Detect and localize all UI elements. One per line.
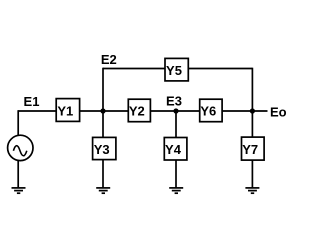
wire Y4 bottom to ground xyxy=(175,160,177,188)
svg-text:E3: E3 xyxy=(166,94,182,109)
admittance block Y5 xyxy=(165,58,188,81)
admittance block Y6 xyxy=(200,99,222,122)
wire source bottom to ground xyxy=(17,161,19,188)
svg-text:Y1: Y1 xyxy=(57,104,73,119)
wire node E2 vertical (Y5 branch through bus down to Y3) xyxy=(102,68,104,138)
node label E1 xyxy=(24,94,40,109)
admittance block Y4 xyxy=(164,138,187,161)
svg-text:Y4: Y4 xyxy=(165,142,182,157)
junction dot node E2 xyxy=(100,108,105,113)
svg-text:Y7: Y7 xyxy=(242,142,258,157)
junction dot node E3 xyxy=(173,108,178,113)
svg-text:Eo: Eo xyxy=(270,105,287,120)
wire node E3 vertical down to Y4 xyxy=(175,110,177,138)
node label Eo xyxy=(270,105,287,120)
svg-text:E2: E2 xyxy=(101,52,117,67)
wire source vertical drop from E1 xyxy=(17,110,19,135)
wire Y3 bottom to ground xyxy=(102,159,104,187)
node label E3 xyxy=(166,94,182,109)
ground (below Y4) xyxy=(169,188,183,193)
ground (below Y7) xyxy=(245,188,259,193)
admittance block Y1 xyxy=(56,99,79,122)
wire Y7 bottom to ground xyxy=(251,160,253,188)
svg-text:E1: E1 xyxy=(24,94,40,109)
svg-text:Y3: Y3 xyxy=(94,142,110,157)
svg-text:Y6: Y6 xyxy=(200,104,216,119)
svg-text:Y5: Y5 xyxy=(166,63,182,78)
ground (below source) xyxy=(12,188,26,193)
wire feedback branch horizontal (E2 to Eo via Y5) xyxy=(103,68,252,70)
wire main horizontal bus at node row xyxy=(18,110,267,112)
svg-text:Y2: Y2 xyxy=(129,104,145,119)
node label E2 xyxy=(101,52,117,67)
voltage source V1 (AC sine source) xyxy=(8,135,33,160)
admittance block Y2 xyxy=(128,99,150,122)
admittance block Y7 xyxy=(242,137,265,160)
wire node Eo vertical (Y5 branch through bus down to Y7) xyxy=(251,68,253,138)
admittance block Y3 xyxy=(93,137,116,159)
ground (below Y3) xyxy=(96,188,110,193)
junction dot node Eo xyxy=(250,108,255,113)
